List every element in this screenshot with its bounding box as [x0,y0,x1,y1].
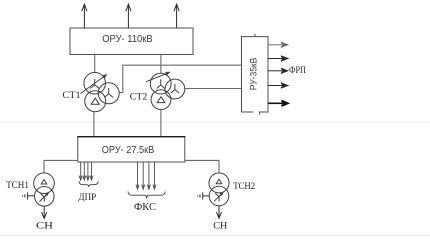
label CH left [36,220,53,231]
wire 110kV bus to CT1 [94,55,96,74]
svg-text:СТ1: СТ1 [62,91,81,101]
transformer CT2 [150,73,185,109]
svg-text:ОРУ- 27.5кВ: ОРУ- 27.5кВ [102,145,155,156]
bus box ОРУ-110кВ [70,28,193,55]
label CT1 [62,91,81,101]
ground symbol TCH2 [198,192,209,199]
label CH right [213,221,227,232]
feeder arrow 35kV 4 [268,83,288,88]
brace ФКС [128,192,165,199]
tap changer arrow TCH1 [39,192,49,202]
wire 27.5kV bus to TCH1 [44,160,78,173]
label ФКС [134,202,156,213]
label TCH1 [6,181,29,191]
svg-text:ОРУ- 110кВ: ОРУ- 110кВ [102,34,153,45]
feeder arrow 35kV 2 [268,56,288,61]
svg-text:СН: СН [36,220,53,231]
output arrow TCH1 to CH [42,206,47,218]
svg-text:СН: СН [213,221,227,232]
svg-text:ФКС: ФКС [134,202,156,213]
brace ДПР [79,181,98,187]
scan artifact line lower [0,235,430,237]
bus box top edge dark [77,136,185,138]
feeder arrow 35kV 5 [268,101,288,107]
svg-text:ДПР: ДПР [78,193,96,203]
svg-text:ФРП: ФРП [289,65,306,75]
label ОРУ-27.5кВ [102,145,155,156]
wire 27.5kV bus to TCH2 [185,160,219,173]
wire CT1 to RU-35kV [119,65,241,92]
wire CT2 to 27.5kV bus [160,109,162,136]
wire CT1 to 27.5kV bus [93,112,95,137]
svg-text:ТСН2: ТСН2 [233,182,255,192]
switchgear box РУ-35кВ [242,34,269,115]
svg-text:РУ-35кВ: РУ-35кВ [249,58,259,91]
tap changer arrow TCH2 [214,191,224,201]
label CT2 [130,93,148,103]
transformer TCH1 [34,173,55,206]
scan artifact line upper [0,121,430,123]
feeder arrow 110kV line 2 [126,4,131,28]
label РУ-35кВ (rotated) [249,58,259,91]
label TCH2 [233,182,255,192]
label ФРП [289,65,306,75]
transformer TCH2 [209,173,229,206]
transformer CT1 [84,72,119,111]
label ОРУ-110кВ [102,34,153,45]
wire 110kV bus to CT2 [160,55,162,74]
feeder arrows ДПР [79,162,93,180]
feeder arrow 110kV line 3 [174,4,179,28]
svg-text:ТСН1: ТСН1 [6,181,29,191]
tap changer arrow CT1 [81,74,108,94]
ground symbol TCH1 [23,192,34,199]
svg-text:СТ2: СТ2 [130,93,148,103]
feeder arrow 110kV line 1 [82,4,87,28]
output arrow TCH2 to CH [217,206,222,218]
feeder arrow 35kV 1 [268,42,288,47]
wire CT2 to RU-35kV [185,88,242,90]
label ДПР [78,193,96,203]
feeder arrow 35kV 3 (ФРП) [268,68,288,73]
bus box ОРУ-27.5кВ [78,137,185,162]
feeder arrows ФКС [136,162,156,189]
tap changer arrow CT2 [146,72,171,82]
